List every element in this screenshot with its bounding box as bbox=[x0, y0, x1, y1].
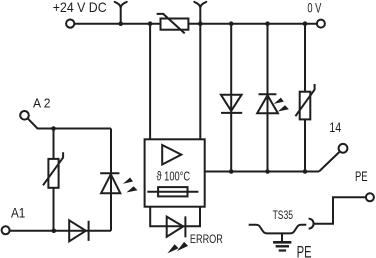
svg-text:14: 14 bbox=[329, 120, 341, 136]
junction output varistor bbox=[303, 169, 308, 174]
terminal PE bbox=[366, 193, 374, 201]
terminal 0V bbox=[317, 20, 325, 28]
switch contact 14 bbox=[319, 152, 340, 172]
varistor series top bbox=[157, 14, 189, 34]
wire PE lead bbox=[314, 197, 366, 224]
svg-text:0 V: 0 V bbox=[307, 1, 322, 16]
wire output bus bbox=[205, 171, 319, 173]
varistor output column bbox=[295, 84, 314, 119]
svg-text:ERROR: ERROR bbox=[190, 232, 223, 246]
ground bars bbox=[273, 242, 291, 250]
terminal 14 bbox=[339, 144, 348, 153]
junction output LED bbox=[265, 169, 270, 174]
wire drop varistor column bbox=[304, 24, 306, 172]
wire A2 lead bbox=[28, 118, 111, 128]
junction output diode bbox=[229, 169, 234, 174]
svg-text:A1: A1 bbox=[11, 205, 25, 220]
wire drop to module left bbox=[149, 24, 151, 140]
svg-text:+24 V DC: +24 V DC bbox=[53, 0, 107, 15]
rail TS35 bbox=[249, 225, 307, 234]
fuse F1 bbox=[147, 187, 198, 196]
wire A1 lead bbox=[10, 230, 111, 232]
junction A2 varistor bbox=[51, 126, 56, 131]
LED error bbox=[167, 216, 188, 253]
wire error loop bbox=[150, 207, 200, 227]
svg-text:ϑ 100°C: ϑ 100°C bbox=[157, 169, 191, 184]
wire LED input branch bbox=[110, 129, 112, 231]
ground stem bbox=[281, 233, 283, 241]
junction A1 varistor bbox=[52, 229, 57, 234]
varistor input bbox=[43, 152, 63, 187]
junction top module left bbox=[148, 21, 153, 26]
svg-text:PE: PE bbox=[297, 243, 312, 258]
wire varistor input branch bbox=[53, 129, 55, 231]
terminal A1 bbox=[2, 226, 10, 234]
op-amp triangle bbox=[162, 145, 181, 165]
junction top Y1 bbox=[118, 21, 123, 26]
wire top bus bbox=[74, 23, 316, 25]
svg-text:TS35: TS35 bbox=[273, 208, 294, 222]
wire drop LED column bbox=[267, 24, 269, 172]
terminal +24V bbox=[66, 20, 74, 28]
wire drop to module right bbox=[199, 24, 201, 140]
wire drop diode column bbox=[230, 24, 232, 172]
test tap Y2 bbox=[194, 2, 206, 24]
LED input bbox=[100, 173, 137, 193]
module box U1 bbox=[145, 139, 205, 206]
diode input series bbox=[69, 220, 88, 241]
junction top varistor column bbox=[303, 21, 308, 26]
junction top Y2 bbox=[198, 21, 203, 26]
svg-text:A 2: A 2 bbox=[33, 96, 51, 111]
junction top LED column bbox=[265, 21, 270, 26]
diode output column bbox=[221, 95, 242, 113]
terminal A2 bbox=[20, 111, 29, 120]
socket clamp bbox=[309, 219, 314, 229]
junction top diode column bbox=[229, 21, 234, 26]
LED output column bbox=[257, 94, 289, 113]
svg-text:PE: PE bbox=[355, 169, 368, 184]
test tap Y1 bbox=[115, 2, 127, 24]
